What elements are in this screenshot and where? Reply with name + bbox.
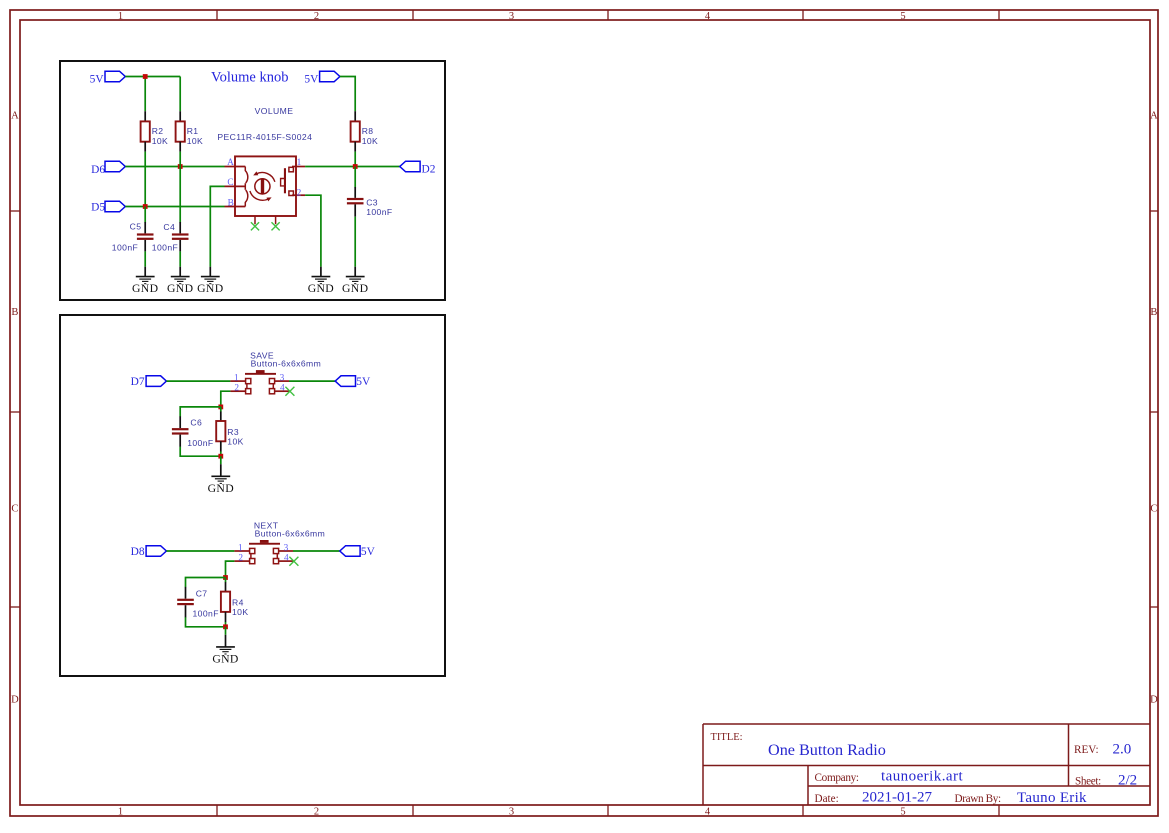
svg-text:100nF: 100nF — [366, 207, 392, 217]
svg-text:1: 1 — [234, 374, 239, 384]
wire SAVE R top — [220, 407, 222, 412]
power flag 5V SAVE — [335, 376, 371, 388]
svg-text:2/2: 2/2 — [1118, 773, 1137, 789]
svg-text:Drawn By:: Drawn By: — [955, 793, 1001, 805]
svg-text:5: 5 — [900, 806, 905, 817]
svg-text:Volume knob: Volume knob — [211, 70, 288, 86]
svg-text:Button-6x6x6mm: Button-6x6x6mm — [251, 359, 322, 369]
wire SAVE C bottom — [180, 447, 221, 457]
ground GND1 — [132, 277, 158, 296]
wire D6 to encoder pin A — [125, 166, 224, 168]
resistor R3 10K — [216, 411, 244, 451]
svg-text:1: 1 — [118, 806, 123, 817]
svg-text:D7: D7 — [131, 376, 145, 388]
wire encoder pin2 to GND — [305, 195, 321, 267]
no-connect SAVE pin 4 — [285, 387, 294, 396]
svg-text:A: A — [1150, 111, 1158, 122]
title block — [703, 724, 1150, 805]
wire C4 to GND — [179, 251, 181, 266]
svg-text:GND: GND — [208, 482, 234, 495]
svg-text:10K: 10K — [362, 136, 379, 146]
wire SAVE to GND — [220, 456, 222, 464]
svg-text:2: 2 — [314, 806, 319, 817]
wire NEXT pin3 to 5V — [293, 550, 340, 552]
svg-text:3: 3 — [284, 544, 289, 554]
global label D7 — [131, 376, 167, 388]
svg-text:R8: R8 — [362, 126, 374, 136]
svg-text:5V: 5V — [361, 546, 376, 558]
svg-text:C5: C5 — [130, 222, 142, 232]
svg-text:C7: C7 — [196, 588, 208, 598]
svg-text:R3: R3 — [227, 427, 239, 437]
sheet box Buttons — [60, 315, 445, 676]
junction D5/R2 — [143, 204, 148, 209]
svg-text:4: 4 — [705, 806, 711, 817]
no-connect encoder mount 2 — [272, 222, 280, 230]
ground GND2 — [167, 277, 193, 296]
svg-text:1: 1 — [118, 11, 123, 22]
wire encoder pin1 to D2 — [305, 166, 400, 168]
svg-text:D8: D8 — [131, 546, 145, 558]
wire SAVE R bottom — [220, 451, 222, 456]
svg-text:100nF: 100nF — [193, 609, 219, 619]
svg-text:C4: C4 — [163, 222, 175, 232]
svg-text:B: B — [11, 307, 18, 318]
svg-text:Sheet:: Sheet: — [1075, 775, 1101, 787]
global label D5 — [91, 201, 125, 214]
svg-text:C: C — [11, 504, 18, 515]
svg-text:B: B — [228, 199, 234, 209]
wire 5V corner to R1 — [179, 77, 181, 112]
svg-text:GND: GND — [308, 282, 334, 295]
wire D5 down to C5 — [144, 207, 146, 223]
rotary encoder SW PEC11R-4015F-S0024 — [217, 106, 312, 224]
svg-text:5V: 5V — [356, 376, 371, 388]
global label D2 — [400, 161, 436, 175]
svg-text:GND: GND — [212, 653, 238, 666]
capacitor C7 100nF — [177, 587, 219, 619]
wire R2 to D5 — [144, 152, 146, 207]
svg-text:3: 3 — [509, 806, 514, 817]
svg-text:3: 3 — [509, 11, 514, 22]
resistor R8 10K — [351, 111, 379, 151]
svg-text:10K: 10K — [227, 437, 244, 447]
svg-text:1: 1 — [297, 158, 302, 168]
power flag 5V NEXT — [340, 546, 376, 558]
svg-text:2: 2 — [297, 188, 302, 198]
wire SAVE pin3 to 5V — [289, 380, 335, 382]
svg-text:C6: C6 — [190, 418, 202, 428]
svg-text:100nF: 100nF — [112, 242, 138, 252]
resistor R1 10K — [176, 111, 204, 151]
ground NEXT GND — [212, 647, 238, 666]
svg-text:10K: 10K — [187, 136, 204, 146]
power flag 5V left — [90, 71, 126, 85]
wire C5 to GND — [144, 251, 146, 266]
svg-text:C: C — [227, 178, 233, 188]
junction 5V/R2 — [143, 74, 148, 79]
capacitor C3 100nF — [347, 187, 393, 217]
svg-text:100nF: 100nF — [187, 438, 213, 448]
capacitor C4 100nF — [152, 222, 189, 252]
wire R8 to node — [354, 152, 356, 167]
no-connect encoder mount 1 — [251, 222, 259, 230]
ground GND5 — [342, 277, 368, 296]
wire SAVE node to C — [180, 407, 221, 417]
svg-text:2: 2 — [234, 384, 239, 394]
capacitor C6 100nF — [172, 416, 214, 448]
wire NEXT C bottom — [186, 617, 226, 627]
global label D8 — [131, 546, 167, 558]
junction D6/R1 — [178, 164, 183, 169]
wire 5V rail top — [125, 76, 180, 78]
svg-text:R2: R2 — [152, 126, 164, 136]
wire D6 down to C4 — [179, 167, 181, 223]
wire R1 to D6 — [179, 152, 181, 167]
svg-text:Date:: Date: — [815, 793, 839, 805]
svg-text:1: 1 — [238, 544, 243, 554]
svg-text:2.0: 2.0 — [1113, 742, 1132, 758]
junction SAVE bottom — [218, 454, 223, 459]
resistor R2 10K — [141, 111, 169, 151]
svg-text:2021-01-27: 2021-01-27 — [862, 790, 932, 806]
svg-text:4: 4 — [705, 11, 711, 22]
svg-text:Button-6x6x6mm: Button-6x6x6mm — [255, 529, 326, 539]
svg-text:Company:: Company: — [815, 772, 859, 784]
wire NEXT to GND — [225, 627, 227, 635]
svg-text:100nF: 100nF — [152, 242, 178, 252]
junction SAVE top — [218, 405, 223, 410]
ground SAVE GND — [208, 476, 234, 495]
svg-text:D: D — [1150, 695, 1158, 706]
wire NEXT node to C — [186, 578, 226, 588]
svg-text:taunoerik.art: taunoerik.art — [881, 769, 963, 785]
svg-text:B: B — [1150, 307, 1157, 318]
wire D8 to NEXT pin1 — [166, 550, 234, 552]
sheet box Volume knob — [60, 61, 445, 300]
ground GND4 — [308, 277, 334, 296]
svg-text:TITLE:: TITLE: — [711, 732, 743, 743]
svg-text:D6: D6 — [91, 164, 105, 176]
svg-text:GND: GND — [167, 282, 193, 295]
capacitor C5 100nF — [112, 222, 154, 253]
svg-text:5: 5 — [900, 11, 905, 22]
svg-text:REV:: REV: — [1074, 744, 1099, 756]
svg-text:D: D — [11, 695, 19, 706]
svg-text:One Button Radio: One Button Radio — [768, 741, 886, 759]
wire SAVE pin2 down — [221, 391, 231, 407]
svg-text:10K: 10K — [232, 607, 249, 617]
svg-text:3: 3 — [280, 374, 285, 384]
svg-text:VOLUME: VOLUME — [255, 106, 294, 116]
svg-text:D2: D2 — [422, 163, 436, 175]
wire encoder pin C to GND — [210, 186, 224, 266]
svg-text:PEC11R-4015F-S0024: PEC11R-4015F-S0024 — [217, 132, 312, 142]
resistor R4 10K — [221, 582, 249, 622]
svg-text:2: 2 — [314, 11, 319, 22]
ground GND3 — [197, 277, 223, 296]
svg-text:5V: 5V — [304, 73, 319, 85]
wire 5V to R2 — [144, 77, 146, 112]
svg-text:A: A — [11, 111, 19, 122]
push button NEXT Button-6x6x6mm — [234, 520, 325, 563]
junction NEXT bottom — [223, 624, 228, 629]
svg-text:Tauno Erik: Tauno Erik — [1017, 790, 1087, 806]
wire node to C3 — [354, 167, 356, 188]
global label D6 — [91, 161, 125, 176]
svg-text:GND: GND — [342, 282, 368, 295]
svg-text:C: C — [1150, 504, 1157, 515]
svg-text:10K: 10K — [152, 136, 169, 146]
svg-text:2: 2 — [238, 554, 243, 564]
svg-text:A: A — [227, 158, 234, 168]
wire NEXT pin2 down — [226, 561, 235, 577]
no-connect NEXT pin 4 — [289, 557, 298, 566]
wire D5 to encoder pin B — [125, 206, 224, 208]
junction NEXT top — [223, 575, 228, 580]
wire NEXT R bottom — [225, 622, 227, 627]
svg-text:R1: R1 — [187, 126, 199, 136]
svg-text:R4: R4 — [232, 598, 244, 608]
wire C3 to GND — [354, 217, 356, 267]
svg-text:GND: GND — [197, 282, 223, 295]
wire D7 to SAVE pin1 — [166, 380, 230, 382]
svg-text:GND: GND — [132, 282, 158, 295]
svg-text:D5: D5 — [91, 202, 105, 214]
junction pin1/R8/C3 — [353, 164, 358, 169]
wire 5V to R8 — [340, 77, 355, 112]
power flag 5V right — [304, 71, 340, 85]
push button SAVE Button-6x6x6mm — [230, 351, 321, 394]
svg-text:4: 4 — [280, 384, 285, 394]
svg-text:5V: 5V — [90, 73, 105, 85]
svg-text:4: 4 — [284, 554, 289, 564]
wire NEXT R top — [225, 578, 227, 583]
